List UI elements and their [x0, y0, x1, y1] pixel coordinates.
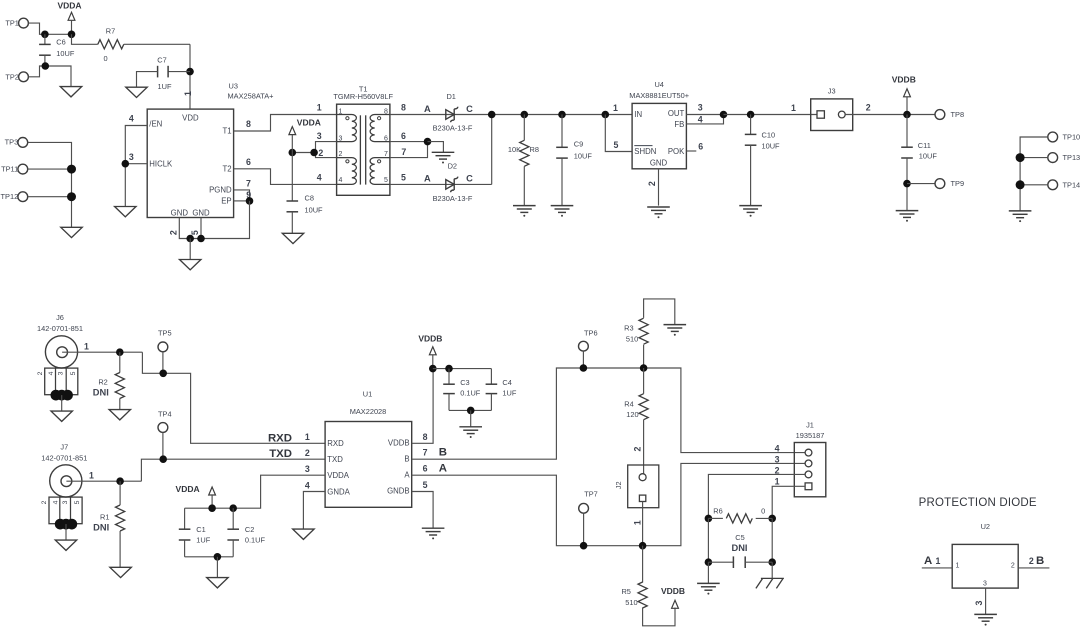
svg-text:GND: GND [171, 208, 189, 217]
svg-text:5: 5 [401, 173, 406, 183]
svg-text:VDD: VDD [182, 113, 199, 122]
svg-text:TP1: TP1 [5, 19, 19, 28]
svg-text:HICLK: HICLK [149, 159, 173, 168]
wire C3-C4 bottom rail [449, 409, 491, 411]
svg-text:B: B [1036, 555, 1044, 567]
wire U2 pin 1 [922, 567, 952, 569]
svg-text:5: 5 [70, 371, 77, 375]
test point TP3 [18, 138, 28, 148]
ground R6/C5 left [697, 583, 720, 590]
U3 pin 3 HICLK wire [125, 163, 147, 165]
junction TP9 tap [903, 180, 911, 188]
svg-text:2: 2 [37, 371, 44, 375]
svg-text:4: 4 [129, 114, 134, 124]
svg-text:10UF: 10UF [56, 49, 75, 58]
U3 pin 4 /EN wire [125, 126, 147, 207]
U1 pin 5 GNDB wire [412, 492, 433, 528]
junction C7 tap [186, 68, 194, 76]
svg-text:TP6: TP6 [584, 328, 598, 337]
svg-text:B230A-13-F: B230A-13-F [433, 123, 473, 132]
connector J3 [811, 99, 853, 131]
svg-text:U3: U3 [229, 81, 238, 90]
ground U2 [974, 614, 997, 621]
wire VDDA cap rail [185, 507, 234, 509]
capacitor C4 [490, 369, 492, 385]
test point TP6 [579, 341, 589, 351]
T1 secondary winding 8-6 [370, 115, 390, 142]
svg-text:U2: U2 [981, 522, 990, 531]
T1 primary winding 2-4 [337, 158, 357, 185]
svg-text:EP: EP [221, 197, 231, 206]
svg-text:2: 2 [1029, 556, 1034, 566]
U4 input branch [602, 111, 610, 119]
capacitor C6 [44, 34, 46, 44]
junction PGND-EP [246, 197, 254, 205]
svg-text:1: 1 [305, 432, 310, 442]
svg-text:2: 2 [1011, 563, 1015, 570]
T1 secondary winding 7-5 [370, 158, 390, 185]
svg-text:4: 4 [317, 173, 322, 183]
T1 pin 8 wire to D1 [390, 114, 632, 116]
junction TP6 [580, 364, 588, 372]
IC U4 MAX8881EUT50+ [632, 103, 686, 168]
ground R2 [109, 410, 130, 420]
svg-text:DNI: DNI [93, 522, 109, 532]
resistor R7 [72, 34, 98, 44]
svg-text:2: 2 [168, 230, 178, 235]
svg-text:R8: R8 [530, 145, 539, 154]
svg-text:IN: IN [634, 110, 642, 119]
svg-text:POK: POK [668, 147, 685, 156]
svg-text:3: 3 [129, 152, 134, 162]
svg-text:2: 2 [647, 181, 657, 186]
junction R3-R4-B [640, 364, 648, 372]
svg-text:R1: R1 [100, 513, 109, 522]
svg-text:MAX22028: MAX22028 [350, 407, 387, 416]
svg-text:TP5: TP5 [158, 328, 172, 337]
T1 primary winding 1-3 [337, 115, 357, 142]
svg-text:3: 3 [983, 581, 987, 588]
svg-text:3: 3 [62, 500, 69, 504]
svg-text:D1: D1 [446, 92, 455, 101]
svg-text:2: 2 [41, 500, 48, 504]
svg-text:TP9: TP9 [951, 179, 965, 188]
junction center tap right [310, 149, 318, 157]
ground R8 [513, 206, 536, 213]
svg-text:1935187: 1935187 [796, 431, 825, 440]
capacitor C1 [184, 508, 186, 529]
junction TP5 [159, 370, 167, 378]
test point TP14 [1048, 180, 1058, 190]
svg-text:510: 510 [625, 598, 637, 607]
svg-text:7: 7 [423, 448, 428, 458]
junction EN-HICLK [122, 160, 130, 168]
svg-text:TP4: TP4 [158, 409, 172, 418]
capacitor C2 [232, 508, 234, 529]
svg-text:1UF: 1UF [196, 536, 210, 545]
svg-text:5: 5 [614, 140, 619, 150]
svg-text:B: B [439, 447, 447, 459]
svg-text:R2: R2 [98, 377, 107, 386]
T1 pin 5 wire to D2 [390, 183, 492, 185]
wire TP1 to C6 node [28, 23, 71, 34]
svg-text:MAX258ATA+: MAX258ATA+ [228, 92, 274, 101]
svg-text:6: 6 [698, 142, 703, 152]
capacitor C10 [747, 111, 755, 119]
svg-text:C4: C4 [502, 378, 511, 387]
wire J7 pin 1 [66, 480, 141, 482]
svg-text:1: 1 [791, 103, 796, 113]
ground TP2/C6 [60, 87, 81, 97]
svg-text:GND: GND [192, 208, 210, 217]
capacitor C3 [448, 369, 450, 385]
svg-text:C2: C2 [245, 525, 254, 534]
svg-text:TXD: TXD [327, 455, 343, 464]
T1 core [360, 115, 365, 184]
wire C5 right to chassis [771, 562, 773, 578]
U1 pin 6 A wire [412, 463, 806, 545]
svg-text:C10: C10 [762, 130, 776, 139]
ground U4 [647, 207, 670, 214]
junction secondary center tap [424, 138, 432, 146]
svg-text:4: 4 [775, 444, 780, 454]
svg-text:A: A [924, 555, 932, 567]
test point TP2 [19, 72, 29, 82]
svg-text:TP7: TP7 [584, 490, 598, 499]
svg-text:1: 1 [613, 103, 618, 113]
wire OUT rail [724, 114, 818, 116]
svg-text:1: 1 [84, 341, 89, 351]
svg-text:U4: U4 [654, 80, 663, 89]
junction R1 tap [116, 477, 124, 485]
svg-text:A: A [424, 174, 431, 184]
svg-text:T1: T1 [222, 127, 231, 136]
capacitor C9 [558, 111, 566, 119]
svg-text:R3: R3 [624, 324, 633, 333]
junction node VDDA-arrow [68, 31, 76, 39]
U4 pin 4 FB wire [686, 115, 723, 124]
junction node VDDA-C6 [41, 31, 49, 39]
svg-text:FB: FB [674, 120, 684, 129]
svg-text:5: 5 [74, 500, 81, 504]
wire C5 left to ground [707, 562, 709, 583]
svg-text:8: 8 [423, 432, 428, 442]
svg-text:A: A [439, 463, 447, 475]
ground GNDB [422, 528, 445, 535]
svg-text:C8: C8 [305, 194, 314, 203]
transformer T1 TGMR-H560V8LF [337, 104, 390, 195]
svg-text:VDDA: VDDA [176, 484, 200, 494]
svg-text:6: 6 [401, 131, 406, 141]
svg-text:4: 4 [52, 500, 59, 504]
ground C9 [551, 206, 574, 213]
svg-text:A: A [424, 104, 431, 114]
svg-text:J6: J6 [56, 313, 64, 322]
svg-text:4: 4 [339, 177, 343, 184]
test point TP11 [18, 164, 28, 174]
ground C1 C2 [207, 578, 228, 588]
svg-text:U1: U1 [363, 390, 372, 399]
svg-text:C5: C5 [735, 533, 744, 542]
svg-text:VDDA: VDDA [57, 1, 81, 11]
svg-text:7: 7 [401, 147, 406, 157]
svg-text:4: 4 [48, 371, 55, 375]
svg-text:C: C [466, 174, 473, 184]
svg-text:B: B [404, 454, 409, 463]
svg-text:GNDA: GNDA [327, 487, 350, 496]
connector J6 BNC 142-0701-851 [45, 336, 77, 368]
svg-text:TGMR-H560V8LF: TGMR-H560V8LF [333, 92, 393, 101]
svg-text:0: 0 [761, 506, 765, 515]
svg-text:10K: 10K [508, 145, 521, 154]
diode D2 B230A-13-F [446, 180, 454, 190]
ground U3 EN/HICLK [115, 207, 136, 217]
svg-text:10UF: 10UF [305, 205, 324, 214]
capacitor C7 [168, 71, 190, 73]
svg-text:10UF: 10UF [919, 151, 938, 160]
svg-text:3: 3 [698, 103, 703, 113]
svg-text:3: 3 [974, 601, 984, 606]
svg-text:7: 7 [384, 151, 388, 158]
svg-text:5: 5 [423, 480, 428, 490]
wire D2 cathode up to rail [491, 115, 493, 185]
U3 pin 7 PGND wire [234, 190, 250, 201]
svg-text:1: 1 [183, 91, 193, 96]
svg-text:TP8: TP8 [951, 110, 965, 119]
test point TP1 [19, 18, 29, 28]
svg-text:4: 4 [305, 480, 310, 490]
ground C3 C4 [459, 427, 482, 434]
wire J7 to TXD path [141, 459, 325, 481]
junction C3 tap [445, 365, 453, 373]
svg-text:A: A [404, 470, 410, 479]
svg-text:R7: R7 [106, 27, 115, 36]
svg-text:TP13: TP13 [1063, 153, 1080, 162]
T1 pin 6 wire [390, 141, 428, 143]
ground secondary center tap [432, 152, 455, 159]
svg-text:J3: J3 [828, 86, 836, 95]
diode D1 B230A-13-F [446, 110, 454, 120]
capacitor C8 [291, 153, 293, 202]
svg-text:TP11: TP11 [1, 164, 18, 173]
svg-text:TXD: TXD [269, 448, 292, 460]
svg-text:VDDB: VDDB [388, 439, 410, 448]
test point TP10 [1048, 132, 1058, 142]
svg-text:/EN: /EN [149, 119, 162, 128]
T1 pin 2 wire to center tap [316, 153, 337, 158]
ground GNDA [293, 529, 314, 539]
svg-text:B230A-13-F: B230A-13-F [433, 194, 473, 203]
U1 pin 7 B wire [412, 368, 806, 459]
svg-text:VDDB: VDDB [418, 333, 442, 343]
test point TP9 [907, 183, 935, 185]
svg-text:J1: J1 [806, 421, 814, 430]
ground C11 [896, 211, 919, 218]
svg-text:2: 2 [305, 448, 310, 458]
svg-text:2: 2 [318, 148, 323, 158]
svg-text:3: 3 [775, 455, 780, 465]
wire C3 C4 top rail [433, 368, 492, 370]
ground U3 GND [180, 260, 201, 270]
wire U2 pin 2 [1018, 567, 1049, 569]
svg-text:T2: T2 [222, 164, 231, 173]
svg-text:142-0701-851: 142-0701-851 [41, 453, 87, 462]
junction C6 bottom [42, 62, 50, 70]
svg-text:VDDB: VDDB [892, 75, 916, 85]
svg-text:5: 5 [384, 177, 388, 184]
ground TP3 group [61, 227, 82, 237]
U1 pin 3 VDDA wire [233, 475, 325, 508]
svg-text:TP14: TP14 [1063, 180, 1080, 189]
svg-text:3: 3 [317, 131, 322, 141]
junction center tap left [289, 149, 297, 157]
test point TP7 [579, 503, 589, 513]
junction C3C4 ground [467, 407, 475, 415]
wire J3 pin2 to VDDB node [845, 114, 935, 116]
svg-text:RXD: RXD [268, 432, 292, 444]
capacitor C11 [906, 115, 908, 148]
chassis ground [756, 578, 784, 588]
svg-text:TP12: TP12 [1, 192, 19, 201]
junction VDDB-arrow [429, 365, 437, 373]
svg-text:1: 1 [936, 556, 941, 566]
resistor R3 510 [643, 345, 645, 368]
svg-text:R5: R5 [621, 587, 630, 596]
svg-text:C6: C6 [56, 38, 65, 47]
svg-text:GND: GND [650, 159, 668, 168]
test point TP13 [1048, 153, 1058, 163]
svg-text:1: 1 [89, 470, 94, 480]
test point TP12 [18, 192, 28, 202]
svg-text:3: 3 [339, 136, 343, 143]
svg-text:6: 6 [423, 464, 428, 474]
svg-text:R4: R4 [624, 399, 633, 408]
svg-text:C3: C3 [460, 378, 469, 387]
svg-text:C11: C11 [918, 141, 931, 150]
svg-text:3: 3 [305, 464, 310, 474]
svg-text:TP2: TP2 [5, 72, 19, 81]
svg-text:J2: J2 [614, 481, 623, 489]
svg-text:0: 0 [103, 54, 107, 63]
svg-text:2: 2 [339, 151, 343, 158]
svg-text:1UF: 1UF [158, 82, 172, 91]
resistor R8 10K [521, 111, 529, 119]
svg-text:7: 7 [246, 178, 251, 188]
svg-text:0.1UF: 0.1UF [460, 389, 481, 398]
svg-text:10UF: 10UF [574, 151, 593, 160]
resistor R2 DNI [119, 352, 121, 372]
IC U3 MAX258ATA+ [147, 109, 233, 217]
svg-text:8: 8 [384, 108, 388, 115]
resistor R6 0 [705, 515, 713, 523]
connector J1 1935187 [794, 443, 826, 497]
resistor R1 DNI [119, 481, 121, 505]
junction R2 tap [116, 348, 124, 356]
junction GND bus a [186, 235, 194, 243]
wire J1 pin 2 [708, 474, 805, 518]
svg-text:6: 6 [246, 157, 251, 167]
svg-text:DNI: DNI [731, 543, 747, 553]
svg-text:120: 120 [626, 410, 638, 419]
U3 pin 6 T2 wire [234, 169, 337, 185]
T1 pin 3 wire to center tap [316, 142, 337, 153]
svg-text:2: 2 [866, 103, 871, 113]
junction TP4 [159, 455, 167, 463]
svg-text:VDDB: VDDB [661, 586, 685, 596]
wire J1 pin 1 [772, 486, 805, 518]
svg-text:6: 6 [384, 136, 388, 143]
ground C7 [126, 87, 147, 97]
svg-text:0.1UF: 0.1UF [245, 536, 266, 545]
IC U1 MAX22028 [325, 422, 412, 508]
svg-text:3: 3 [58, 371, 65, 375]
junction J2-R5 [639, 542, 647, 550]
U4 pin 2 GND stub [658, 169, 660, 206]
U4 pin 3 OUT wire [686, 114, 723, 116]
svg-text:1: 1 [775, 477, 780, 487]
wire J2 pin1 down [642, 502, 644, 546]
svg-text:C: C [466, 104, 473, 114]
resistor R4 120 [643, 368, 645, 394]
svg-text:RXD: RXD [327, 439, 344, 448]
ground C8 [282, 233, 303, 243]
svg-text:142-0701-851: 142-0701-851 [37, 324, 83, 333]
wire GND bus down [189, 239, 191, 260]
svg-text:1: 1 [317, 103, 322, 113]
svg-text:J7: J7 [60, 442, 68, 451]
svg-text:8: 8 [401, 103, 406, 113]
svg-text:1: 1 [339, 108, 343, 115]
resistor R5 510 [642, 546, 644, 583]
U3 GND pins bus [179, 201, 249, 239]
ground C10 [739, 206, 762, 213]
junction GND bus b [197, 235, 205, 243]
svg-text:1: 1 [633, 520, 643, 525]
wire J6 to RXD path [142, 352, 325, 443]
junction C1C2 ground [214, 553, 222, 561]
svg-text:SHDN: SHDN [634, 147, 656, 156]
U3 pin 9 EP wire [234, 200, 250, 202]
wire VDD feed vertical [189, 44, 191, 109]
junction D2-rail [488, 111, 496, 119]
wire primary center tap [292, 152, 315, 154]
svg-text:2: 2 [633, 446, 643, 451]
svg-text:R6: R6 [713, 506, 722, 515]
svg-text:MAX8881EUT50+: MAX8881EUT50+ [629, 91, 689, 100]
svg-text:8: 8 [246, 119, 251, 129]
svg-text:D2: D2 [448, 162, 457, 171]
test point TP8 [935, 110, 945, 120]
test point TP4 [158, 423, 168, 433]
svg-text:DNI: DNI [93, 387, 109, 397]
ground TP10 group [1009, 211, 1032, 218]
svg-text:10UF: 10UF [762, 141, 781, 150]
wire J6 pin 1 [62, 351, 142, 353]
svg-text:VDDA: VDDA [297, 118, 321, 128]
svg-text:1: 1 [956, 563, 960, 570]
U3 pin 8 T1 wire [234, 115, 337, 132]
svg-text:VDDA: VDDA [327, 471, 349, 480]
svg-text:TP10: TP10 [1063, 133, 1080, 142]
svg-text:C9: C9 [574, 139, 583, 148]
svg-text:GNDB: GNDB [387, 487, 410, 496]
ground R1 [110, 567, 131, 577]
wire TP2 to ground node [28, 66, 71, 87]
junction VDDB node [903, 111, 911, 119]
svg-text:PROTECTION DIODE: PROTECTION DIODE [919, 497, 1037, 509]
U4 pin 6 POK stub [686, 150, 696, 152]
U1 pin 4 GNDA wire [303, 492, 325, 530]
